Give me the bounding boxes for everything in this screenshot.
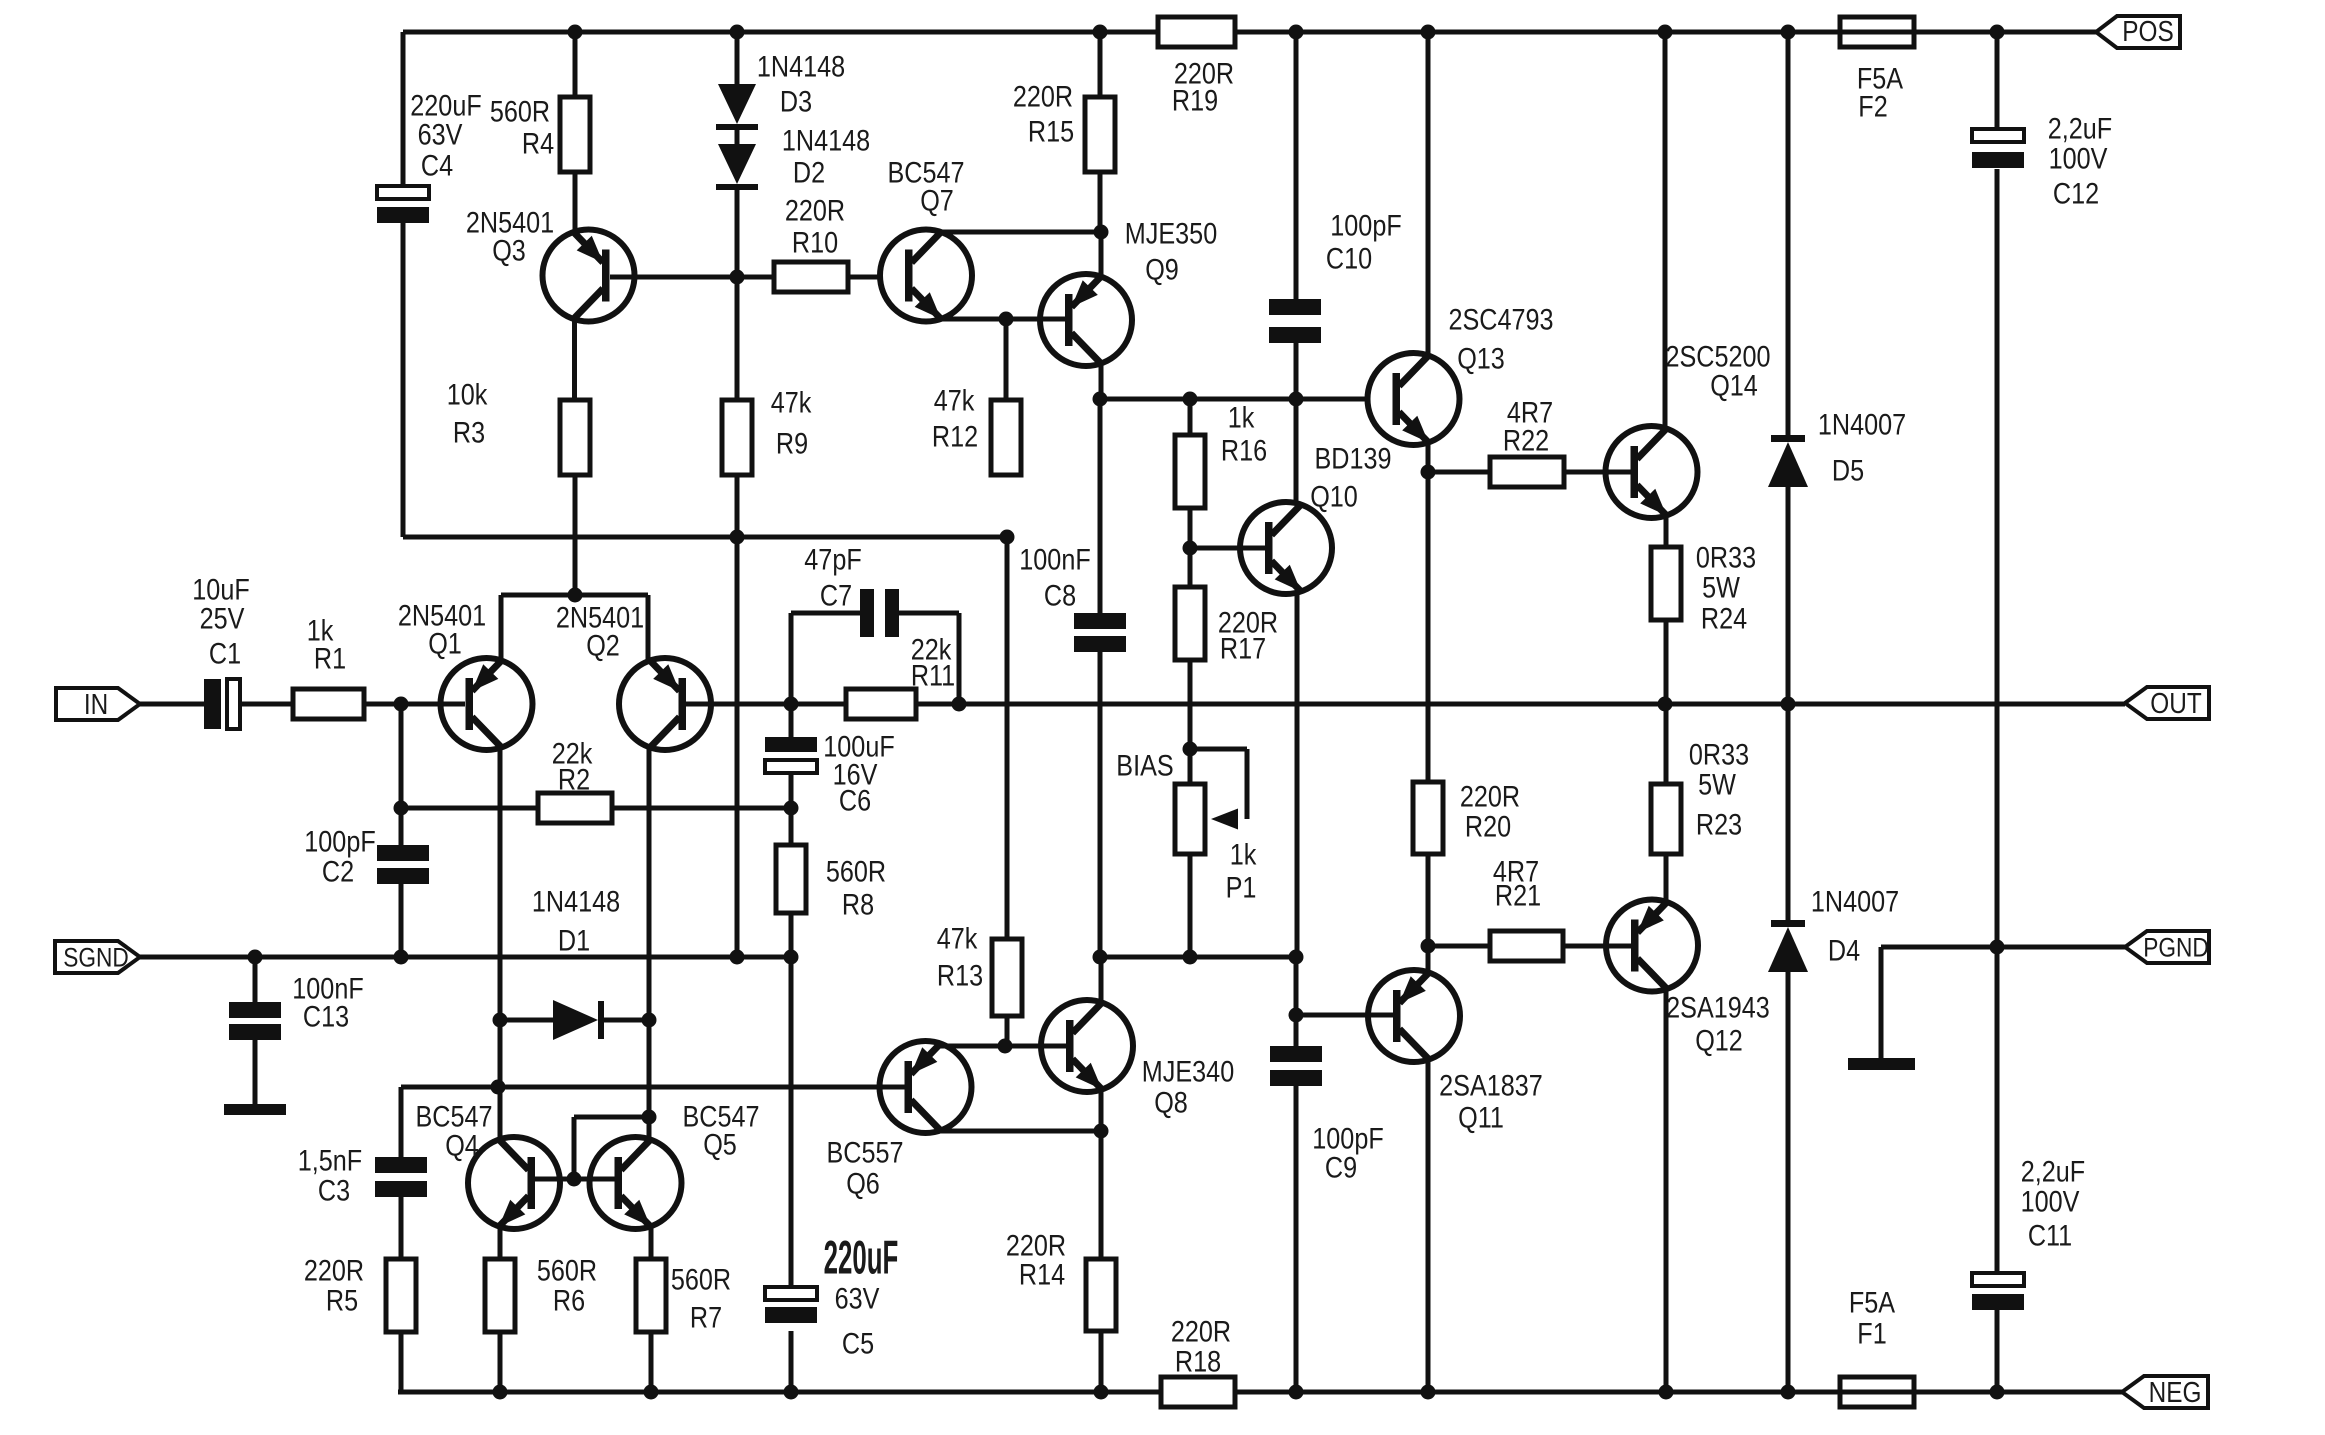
svg-text:C10: C10 — [1326, 241, 1372, 275]
node C9 NEG — [1289, 1385, 1304, 1400]
svg-text:5W: 5W — [1698, 767, 1737, 801]
node tail join — [568, 588, 583, 603]
svg-text:R1: R1 — [314, 641, 346, 675]
capacitor C2 — [304, 824, 429, 888]
svg-text:C12: C12 — [2053, 176, 2099, 210]
resistor R19 — [1158, 17, 1235, 117]
resistor R2 — [538, 736, 612, 823]
svg-text:220R: 220R — [1171, 1314, 1231, 1348]
svg-text:1,5nF: 1,5nF — [298, 1143, 362, 1177]
svg-text:C11: C11 — [2028, 1218, 2072, 1252]
wire PGND line — [1881, 945, 2125, 950]
wire Q7 emitter — [940, 317, 1006, 322]
capacitor C10 — [1269, 208, 1402, 343]
wire C1 to R1 — [240, 702, 293, 707]
svg-text:5W: 5W — [1702, 570, 1741, 604]
node C2 SGND — [394, 950, 409, 965]
wire Q6 base line — [401, 1085, 905, 1090]
wire R8 SGND to C5 — [789, 957, 794, 1299]
wire R16-R17 — [1188, 508, 1193, 587]
wire C12 to PGND — [1995, 169, 2000, 1273]
wire Q13 emitter — [1426, 442, 1431, 472]
transistor Q3 — [466, 205, 635, 321]
svg-text:F2: F2 — [1858, 89, 1887, 123]
wire Q13E to R20 — [1426, 472, 1431, 782]
wire bias rail — [1100, 955, 1296, 960]
wire R14 top — [1099, 1131, 1104, 1259]
node R4 top rail — [568, 25, 583, 40]
svg-text:Q9: Q9 — [1145, 252, 1179, 286]
wire D2 to R9 — [735, 190, 740, 400]
svg-text:BD139: BD139 — [1314, 441, 1391, 475]
svg-text:10k: 10k — [447, 377, 488, 411]
svg-text:PGND: PGND — [2143, 933, 2209, 963]
resistor R11 — [846, 632, 955, 719]
svg-text:100nF: 100nF — [1019, 542, 1090, 576]
svg-text:100V: 100V — [2049, 141, 2108, 175]
transistor Q13 — [1368, 302, 1554, 445]
wire R22 to Q14 base — [1564, 470, 1632, 475]
svg-text:R18: R18 — [1175, 1344, 1221, 1378]
wire R23 to Q12 emitter — [1664, 854, 1669, 902]
resistor R16 — [1175, 399, 1267, 508]
resistor R21 — [1490, 854, 1563, 961]
svg-text:1k: 1k — [1230, 837, 1257, 871]
node jumper to Q2C — [642, 1110, 657, 1125]
wire Q1 base drop — [399, 704, 404, 957]
transistor Q11 — [1368, 970, 1543, 1134]
wire Q14 emitter — [1664, 515, 1669, 547]
svg-text:D5: D5 — [1832, 453, 1864, 487]
svg-text:C2: C2 — [322, 854, 354, 888]
node R2 left — [394, 801, 409, 816]
wire Q9 base — [1006, 317, 1066, 322]
svg-text:R6: R6 — [553, 1283, 585, 1317]
transistor Q7 — [880, 155, 972, 321]
svg-text:D1: D1 — [558, 923, 590, 957]
node Q6 base line tap — [491, 1080, 506, 1095]
wire R2 left — [401, 806, 538, 811]
wire VAS node line — [1099, 397, 1368, 402]
transistor Q2 — [556, 600, 711, 750]
wire C10 top — [1294, 32, 1299, 299]
svg-text:MJE340: MJE340 — [1142, 1054, 1234, 1088]
terminal IN — [56, 688, 140, 721]
wire Q2 base — [686, 702, 846, 707]
node Q11E node — [1421, 939, 1436, 954]
wire C9 top — [1294, 1015, 1299, 1046]
svg-text:Q6: Q6 — [846, 1166, 880, 1200]
svg-text:2,2uF: 2,2uF — [2048, 111, 2112, 145]
svg-text:R10: R10 — [792, 225, 838, 259]
resistor R22 — [1490, 395, 1564, 487]
resistor R4 — [490, 94, 590, 172]
svg-text:Q5: Q5 — [703, 1127, 737, 1161]
node C13 SGND — [248, 950, 263, 965]
wire Q8 collector — [1099, 957, 1104, 1002]
node Q13C rail — [1421, 25, 1436, 40]
wire Q2 collector — [647, 747, 652, 1020]
wire C3 drop — [399, 1087, 404, 1157]
svg-text:R20: R20 — [1465, 809, 1511, 843]
svg-text:BC557: BC557 — [826, 1135, 903, 1169]
node Q2 base — [784, 697, 799, 712]
wire C7 right — [899, 613, 959, 704]
resistor R23 — [1651, 737, 1749, 854]
svg-text:D2: D2 — [793, 155, 825, 189]
svg-text:R3: R3 — [453, 415, 485, 449]
wire R21 left — [1428, 944, 1490, 949]
svg-text:R5: R5 — [326, 1283, 358, 1317]
terminal POS — [2096, 15, 2180, 48]
svg-text:R24: R24 — [1701, 601, 1747, 635]
svg-text:63V: 63V — [418, 117, 463, 151]
diode D5 — [1768, 407, 1906, 487]
wire R15 top — [1098, 32, 1103, 97]
svg-text:D3: D3 — [780, 84, 812, 118]
diode D3 — [716, 49, 845, 130]
svg-text:2SC4793: 2SC4793 — [1448, 302, 1553, 336]
resistor R3 — [447, 377, 590, 475]
capacitor C1 — [192, 572, 249, 729]
resistor R1 — [293, 613, 364, 719]
svg-text:0R33: 0R33 — [1689, 737, 1749, 771]
svg-text:100pF: 100pF — [304, 824, 375, 858]
wire C6 bottom — [789, 775, 794, 808]
node R16 tap — [1183, 392, 1198, 407]
transistor Q14 — [1606, 339, 1771, 518]
transistor Q1 — [398, 598, 533, 750]
wire R23 top — [1664, 704, 1669, 784]
resistor R17 — [1175, 587, 1278, 665]
wire R9 to SGND — [735, 475, 740, 957]
svg-text:100pF: 100pF — [1330, 208, 1401, 242]
svg-text:R2: R2 — [558, 762, 590, 796]
wire R6 to NEG — [498, 1332, 503, 1392]
wire Q8 emitter — [1099, 1089, 1104, 1131]
ground C13 — [224, 1040, 286, 1115]
node Q1 base — [394, 697, 409, 712]
svg-text:C7: C7 — [820, 578, 852, 612]
wire Q13 collector — [1426, 32, 1431, 356]
wire C13 top — [253, 957, 258, 1002]
svg-text:47k: 47k — [934, 383, 975, 417]
wire Q5 emitter — [649, 1227, 654, 1259]
node diode chain base — [730, 270, 745, 285]
potentiometer P1 — [1116, 748, 1256, 904]
wire D5 top — [1786, 32, 1791, 435]
diode D2 — [716, 123, 870, 190]
wire Q14 collector — [1663, 32, 1668, 429]
svg-text:NEG: NEG — [2149, 1376, 2202, 1408]
node D1 right — [642, 1013, 657, 1028]
svg-text:220uF: 220uF — [824, 1233, 899, 1285]
wire Q12 collector — [1664, 989, 1669, 1392]
svg-text:47k: 47k — [771, 385, 812, 419]
svg-text:Q14: Q14 — [1710, 368, 1758, 402]
wire D4 to NEG — [1786, 972, 1791, 1392]
wire R21 to Q12 base — [1563, 944, 1632, 949]
resistor R14 — [1006, 1228, 1116, 1331]
node base jumper — [567, 1172, 582, 1187]
svg-text:IN: IN — [84, 688, 108, 720]
svg-text:Q7: Q7 — [920, 183, 954, 217]
svg-text:1N4148: 1N4148 — [757, 49, 845, 83]
svg-text:R13: R13 — [937, 958, 983, 992]
wire Q11 collector — [1426, 1059, 1431, 1392]
wire Q1C to Q4 — [498, 1020, 503, 1138]
resistor R10 — [774, 193, 848, 292]
wire base jumper — [574, 1117, 649, 1179]
svg-text:R12: R12 — [932, 419, 978, 453]
transistor Q9 — [1040, 216, 1217, 366]
svg-text:D4: D4 — [1828, 933, 1860, 967]
svg-text:Q13: Q13 — [1457, 341, 1505, 375]
svg-text:C4: C4 — [421, 148, 453, 182]
svg-text:P1: P1 — [1226, 870, 1257, 904]
svg-text:220R: 220R — [304, 1253, 364, 1287]
svg-text:R8: R8 — [842, 887, 874, 921]
svg-text:C8: C8 — [1044, 578, 1076, 612]
wire D1 left — [500, 1018, 553, 1023]
svg-text:R21: R21 — [1495, 878, 1541, 912]
svg-text:R23: R23 — [1696, 807, 1742, 841]
node C10 tap — [1289, 392, 1304, 407]
node R24 OUT — [1658, 697, 1673, 712]
node R8 SGND — [784, 950, 799, 965]
transistor Q8 — [1041, 1000, 1234, 1119]
node R9 upper-rail — [730, 530, 745, 545]
wire C7 left — [791, 613, 860, 704]
svg-text:220R: 220R — [785, 193, 845, 227]
wire Q11 base — [1296, 1013, 1393, 1018]
capacitor C5 — [765, 1233, 898, 1360]
node R9 SGND — [730, 950, 745, 965]
terminal PGND — [2125, 931, 2209, 963]
wire tail emitter rail — [501, 475, 648, 661]
wire C5 to NEG — [789, 1331, 794, 1392]
resistor R8 — [776, 808, 886, 921]
svg-text:SGND: SGND — [63, 943, 129, 973]
node Q11 base tap — [1289, 1008, 1304, 1023]
resistor R18 — [1161, 1314, 1235, 1407]
node R6 NEG — [493, 1385, 508, 1400]
wire R14 to NEG — [1099, 1331, 1104, 1392]
wire front-end upper rail y537 — [403, 32, 1007, 939]
svg-text:C3: C3 — [318, 1173, 350, 1207]
wire R10 to Q7 — [848, 275, 882, 280]
svg-text:1k: 1k — [1228, 400, 1255, 434]
svg-text:Q10: Q10 — [1310, 479, 1358, 513]
wire Q10E to Q11 base — [1294, 957, 1299, 1015]
svg-text:1N4148: 1N4148 — [782, 123, 870, 157]
wire P1 bottom — [1188, 854, 1193, 957]
svg-text:Q3: Q3 — [492, 233, 526, 267]
svg-text:1N4007: 1N4007 — [1811, 884, 1899, 918]
svg-text:1N4007: 1N4007 — [1818, 407, 1906, 441]
node R2-C6-R8 — [784, 801, 799, 816]
wire D5 to D4 — [1786, 487, 1791, 920]
node C12 rail — [1990, 25, 2005, 40]
wire NEG rail — [398, 1390, 2122, 1395]
wire R17 to P1 — [1188, 660, 1193, 784]
resistor R9 — [722, 385, 811, 475]
wire R20 bottom — [1426, 854, 1431, 946]
wire Q9 emitter — [1099, 232, 1104, 277]
wire D1 right — [604, 1018, 649, 1023]
diode D4 — [1768, 884, 1899, 972]
wire R12 top — [1004, 319, 1009, 400]
svg-text:C5: C5 — [842, 1326, 874, 1360]
terminal SGND — [55, 941, 140, 973]
wire POS rail — [403, 30, 2096, 35]
svg-text:220R: 220R — [1460, 779, 1520, 813]
node D3 top rail — [730, 25, 745, 40]
svg-text:2SA1837: 2SA1837 — [1439, 1068, 1543, 1102]
transistor Q4 — [415, 1099, 560, 1229]
wire Q10 base — [1190, 546, 1265, 551]
node Q7-R15-Q9 — [1094, 225, 1109, 240]
svg-text:R17: R17 — [1220, 631, 1266, 665]
resistor R5 — [304, 1253, 416, 1332]
resistor R12 — [932, 383, 1021, 475]
svg-text:R9: R9 — [776, 426, 808, 460]
node C7 right — [952, 697, 967, 712]
wire Q10 emitter — [1295, 591, 1300, 957]
svg-text:MJE350: MJE350 — [1125, 216, 1217, 250]
wire R13 bottom — [1005, 1016, 1010, 1046]
node Q12C NEG — [1659, 1385, 1674, 1400]
node R15 top rail — [1093, 25, 1108, 40]
transistor Q12 — [1606, 900, 1770, 1057]
wire OUT rail — [916, 702, 2125, 707]
svg-text:C6: C6 — [839, 783, 871, 817]
svg-text:2SA1943: 2SA1943 — [1666, 990, 1770, 1024]
svg-text:560R: 560R — [671, 1262, 731, 1296]
svg-text:1N4148: 1N4148 — [532, 884, 620, 918]
node P1 wiper tie — [1183, 742, 1198, 757]
node R7 NEG — [644, 1385, 659, 1400]
svg-text:100V: 100V — [2021, 1184, 2080, 1218]
svg-text:BIAS: BIAS — [1116, 748, 1173, 782]
svg-text:Q1: Q1 — [428, 626, 462, 660]
wire R2 right — [612, 806, 791, 811]
node C5 NEG — [784, 1385, 799, 1400]
svg-text:F1: F1 — [1857, 1316, 1886, 1350]
svg-text:R14: R14 — [1019, 1257, 1065, 1291]
svg-text:Q2: Q2 — [586, 628, 620, 662]
wire C9 bottom — [1294, 1086, 1299, 1392]
wire SGND rail — [140, 955, 791, 960]
resistor R13 — [937, 921, 1022, 1016]
wire C3 to R5 — [399, 1197, 404, 1259]
svg-text:560R: 560R — [537, 1253, 597, 1287]
capacitor C11 — [1972, 1154, 2085, 1310]
wire R24 to OUT — [1664, 620, 1669, 704]
node C11 NEG — [1990, 1385, 2005, 1400]
diode D1 — [532, 884, 620, 1040]
svg-text:R11: R11 — [911, 658, 955, 692]
svg-text:F5A: F5A — [1849, 1285, 1896, 1319]
wire C10 bottom — [1294, 343, 1299, 504]
node OUT-D5 — [1781, 697, 1796, 712]
wire Q6 collector line — [941, 1129, 1101, 1134]
terminal NEG — [2122, 1376, 2208, 1409]
wire R22 left — [1428, 470, 1490, 475]
transistor Q5 — [590, 1099, 760, 1229]
terminal OUT — [2125, 687, 2209, 720]
wire R5 to NEG — [399, 1332, 404, 1392]
svg-text:Q11: Q11 — [1458, 1100, 1504, 1134]
wire Q6 emitter line — [940, 1044, 1066, 1049]
wire IN to C1 — [140, 702, 204, 707]
wire C6 top — [789, 704, 794, 737]
wire R7 to NEG — [649, 1332, 654, 1392]
svg-text:C1: C1 — [209, 636, 241, 670]
node Q6C-Q8E — [1094, 1124, 1109, 1139]
wire Q4-Q5 bases — [535, 1177, 616, 1182]
node D1 left — [493, 1013, 508, 1028]
node R14 NEG — [1094, 1385, 1109, 1400]
capacitor C7 — [804, 542, 899, 637]
transistor Q10 — [1240, 441, 1392, 594]
node D5 rail — [1781, 25, 1796, 40]
node Q9C — [1093, 392, 1108, 407]
node Q11C NEG — [1421, 1385, 1436, 1400]
svg-text:2,2uF: 2,2uF — [2021, 1154, 2085, 1188]
fuse F1 — [1840, 1285, 1914, 1407]
svg-text:R15: R15 — [1028, 114, 1074, 148]
capacitor C8 — [1019, 542, 1126, 652]
capacitor C13 — [229, 971, 364, 1040]
capacitor C6 — [765, 729, 895, 817]
node C11 PGND — [1990, 940, 2005, 955]
node Q14C rail — [1658, 25, 1673, 40]
svg-text:63V: 63V — [835, 1281, 880, 1315]
node P1 bias rail — [1183, 950, 1198, 965]
svg-text:Q8: Q8 — [1154, 1085, 1188, 1119]
svg-text:560R: 560R — [826, 854, 886, 888]
node Q7E-Q9B-R12 — [999, 312, 1014, 327]
resistor R6 — [485, 1253, 597, 1332]
svg-text:OUT: OUT — [2150, 687, 2201, 719]
wire Q11 emitter — [1426, 946, 1431, 973]
svg-text:25V: 25V — [200, 601, 245, 635]
wire R4 to Q3 — [573, 172, 578, 232]
wire Q3 collector to R3 — [572, 319, 577, 400]
svg-text:47pF: 47pF — [804, 542, 861, 576]
wire Q3 base — [610, 275, 774, 280]
wire Q7 collector — [940, 230, 1101, 235]
svg-text:POS: POS — [2122, 15, 2173, 47]
capacitor C12 — [1972, 111, 2112, 210]
node R12 bottom — [1000, 530, 1015, 545]
node R13-Q6E-Q8B — [998, 1039, 1013, 1054]
node Q13E — [1421, 465, 1436, 480]
resistor R15 — [1013, 79, 1115, 172]
node Q8C bias rail — [1093, 950, 1108, 965]
fuse F2 — [1840, 17, 1914, 123]
wire D3-D2 — [735, 130, 740, 144]
capacitor C4 — [377, 88, 482, 223]
wire Q9 collector — [1099, 364, 1104, 399]
svg-text:Q12: Q12 — [1695, 1023, 1743, 1057]
svg-text:R7: R7 — [690, 1300, 722, 1334]
svg-text:220R: 220R — [1013, 79, 1073, 113]
resistor R7 — [636, 1259, 731, 1334]
wire C12 top — [1995, 32, 2000, 129]
node Q10E bias rail — [1289, 950, 1304, 965]
